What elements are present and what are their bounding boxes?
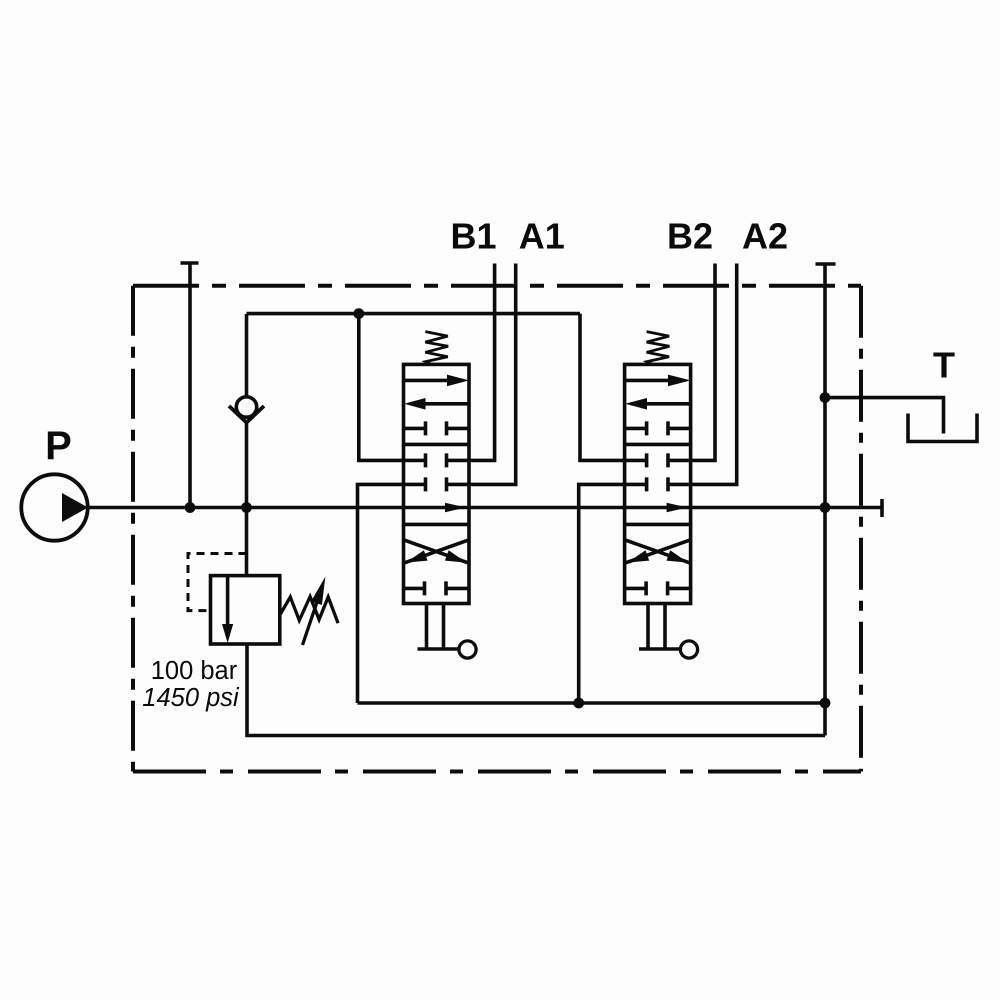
enclosure dashed boundary top (133, 284, 861, 288)
DV1 blocked row 1 (404, 421, 470, 435)
enclosure dashed boundary left (131, 286, 135, 772)
node tank line junctions (573, 698, 584, 709)
svg-text:B1: B1 (450, 216, 496, 257)
wire to tank (825, 398, 944, 434)
DV1 blocked row 2 (404, 453, 470, 467)
DV2 arrow P-B (625, 379, 671, 383)
wire A2 port line (691, 264, 737, 485)
DV2 blocked row bottom (625, 581, 691, 595)
node main line junctions (185, 502, 196, 513)
DV1 arrow P-B (404, 379, 451, 383)
spring DV2 (647, 332, 670, 365)
wire B1 port line (469, 264, 495, 461)
DV1 main flow arrow (445, 503, 466, 512)
DV1 cross flow X (404, 540, 470, 563)
svg-text:P: P (45, 424, 72, 468)
DV2 divider 2 (625, 523, 691, 527)
wire gallery down to valve 2 left port (580, 314, 625, 461)
svg-text:100 bar: 100 bar (151, 657, 238, 685)
check valve V1 (229, 314, 264, 508)
DV1 blocked row 3 (404, 477, 470, 491)
wire valve 2 left lower port to tank line (579, 484, 625, 703)
DV2 cross flow X (625, 540, 691, 563)
valve DV1 spool (404, 332, 477, 659)
wire valve 1 left lower port to tank line (358, 484, 404, 703)
pump P (21, 474, 88, 540)
svg-text:A1: A1 (519, 216, 565, 257)
node junction gallery (353, 308, 364, 319)
wire main pressure line P (88, 506, 882, 510)
svg-text:B2: B2 (667, 216, 713, 257)
DV2 blocked row 3 (625, 477, 691, 491)
enclosure dashed boundary right (859, 286, 863, 772)
svg-text:A2: A2 (742, 216, 788, 257)
wire A1 port line (469, 264, 516, 485)
right rail tank gallery (816, 264, 836, 736)
DV2 divider (625, 443, 691, 447)
DV1 arrow A-T (422, 402, 469, 406)
wire check valve to parallel gallery (247, 312, 581, 316)
wire B2 port line (691, 264, 715, 461)
terminator main line end (880, 499, 884, 517)
valve DV2 spool (625, 332, 698, 659)
DV1 blocked row bottom (404, 581, 470, 595)
DV2 main flow arrow (667, 503, 688, 512)
node right rail tank junction (820, 392, 831, 403)
DV1 actuator (418, 604, 459, 650)
DV1 divider 2 (404, 523, 470, 527)
valve DV2 body (625, 364, 691, 603)
DV2 blocked row 1 (625, 421, 691, 435)
svg-text:1450 psi: 1450 psi (142, 684, 240, 712)
left gallery plug line (181, 263, 199, 508)
relief valve RV1 (188, 508, 825, 736)
DV2 blocked row 2 (625, 453, 691, 467)
tank symbol T (908, 414, 977, 442)
wire gallery down to valve 1 left port (359, 314, 404, 461)
spring DV1 (425, 332, 448, 365)
enclosure dashed boundary bottom (133, 770, 861, 774)
wire tank return line (358, 701, 826, 705)
DV2 arrow A-T (643, 402, 691, 406)
valve DV1 body (404, 364, 470, 603)
DV1 divider (404, 443, 470, 447)
svg-text:T: T (933, 345, 955, 386)
DV2 actuator (639, 604, 680, 650)
